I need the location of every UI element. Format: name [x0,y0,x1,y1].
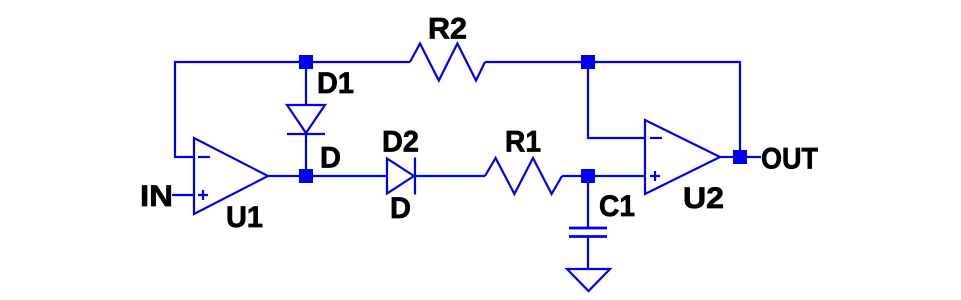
wire: top wire right segment to right corner down to OUT node [485,62,740,150]
D1 cathode bar [287,133,325,135]
ground [567,269,610,291]
node junction top-left (D1 anode tap) [299,55,313,69]
U2 plus pin mark [650,171,660,181]
wire: R1 to junction to U2 plus input [562,175,645,177]
wire: D2 cathode to R1 [414,175,485,177]
resistor R1 [485,158,562,194]
D2 cathode bar [414,158,416,195]
wire: top junction down to D1 anode [305,62,307,105]
wire: top junction 2 down and into U2 minus input [588,62,645,138]
U2 minus pin mark [650,137,662,139]
capacitor C1 [569,228,607,237]
svg-text:D: D [320,142,341,175]
svg-text:OUT: OUT [761,143,818,176]
wire: junction to capacitor C1 top plate [587,176,589,228]
wire: IN input to U1 plus [172,194,194,196]
svg-text:U2: U2 [683,182,724,215]
wire: node D to D2 anode [306,175,387,177]
wire: OUT node to OUT label [747,156,761,158]
wire: D1 cathode to node D [305,134,307,176]
node OUT junction [733,150,747,164]
svg-text:U1: U1 [226,201,263,234]
op-amp U2 [645,120,720,194]
node junction R1/C1/U2+ [581,169,595,183]
diode D2 [387,159,414,194]
svg-text:R1: R1 [505,126,541,159]
U1 minus pin mark [198,156,210,158]
resistor R2 [410,44,485,81]
svg-text:D: D [390,192,411,225]
op-amp U1 [194,138,268,214]
svg-text:R2: R2 [428,13,467,46]
svg-text:IN: IN [140,180,173,213]
diode D1 [287,105,325,133]
node junction top-right (U2 minus tap) [581,55,595,69]
wire: U1 output to node D [268,175,306,177]
wire: U2 output to OUT node [720,156,733,158]
wire: C1 bottom plate to ground [587,237,589,270]
wire: left feedback vertical + top wire left segment [175,62,410,157]
node D junction [299,169,313,183]
svg-text:D2: D2 [382,126,419,159]
svg-text:C1: C1 [599,190,635,223]
U1 plus pin mark [198,190,208,200]
svg-text:D1: D1 [317,67,354,100]
